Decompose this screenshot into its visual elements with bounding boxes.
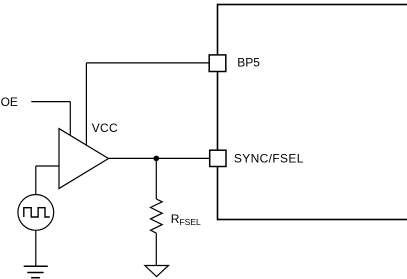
wire clock source to ground: [35, 230, 37, 266]
wire OE vertical into buffer: [69, 102, 71, 136]
ground (earth) under clock source: [24, 265, 48, 267]
clock source square-wave glyph: [24, 208, 50, 217]
wire buffer output to SYNC/FSEL: [109, 157, 210, 159]
svg-text:BP5: BP5: [237, 56, 260, 70]
wire clock source to input vertical: [35, 166, 37, 195]
wire resistor to ground: [155, 233, 157, 265]
IC U1 body: [218, 5, 407, 220]
pin BP5 terminal square: [209, 55, 226, 72]
svg-text:SYNC/FSEL: SYNC/FSEL: [234, 152, 304, 166]
wire junction to resistor: [155, 158, 157, 199]
resistor RFSEL zigzag: [151, 199, 163, 233]
op-amp buffer U2 triangle: [59, 129, 109, 189]
svg-text:VCC: VCC: [92, 121, 118, 135]
ground (signal) triangle under resistor: [145, 266, 169, 277]
svg-text:OE: OE: [1, 95, 18, 109]
node junction dot: [154, 156, 160, 162]
wire BP5 to VCC net (top horizontal): [86, 62, 209, 64]
wire OE horizontal: [31, 101, 70, 103]
wire VCC vertical to buffer top: [85, 63, 87, 145]
svg-text:RFSEL: RFSEL: [171, 212, 201, 227]
wire buffer input horizontal: [36, 165, 59, 167]
pin SYNC/FSEL terminal square: [210, 150, 226, 166]
clock source V1 circle: [18, 195, 54, 231]
